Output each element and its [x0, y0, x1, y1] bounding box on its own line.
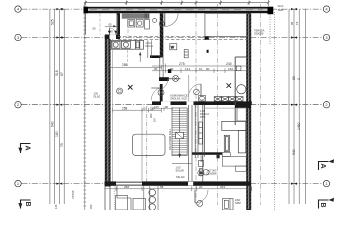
svg-text:85: 85	[290, 21, 294, 25]
overhang dashed lines above kitchen	[118, 36, 248, 38]
grid bubble right 4	[323, 6, 329, 12]
vertical grid line x128 (room axis)	[127, 13, 129, 36]
bottom small vertical texts	[54, 204, 93, 209]
grid bubble right 3	[323, 34, 329, 40]
svg-text:3: 3	[297, 78, 301, 80]
living room dim line 255	[113, 108, 162, 113]
bathtub lower right	[222, 153, 246, 172]
horizontal grid line 3 (y37.5)	[22, 37, 324, 39]
understair wc fixtures	[172, 160, 204, 176]
svg-text:10: 10	[199, 67, 203, 71]
grid bubble left 3	[15, 34, 21, 40]
left exterior wall (hatched)	[105, 35, 111, 187]
three circles (plants)	[149, 189, 156, 210]
grid bubble left 1	[15, 180, 21, 186]
svg-text:180: 180	[55, 131, 59, 137]
grid bubble right 2	[323, 102, 329, 108]
kitchen lower counter with sinks	[110, 40, 143, 49]
understair label	[176, 166, 185, 173]
lower bath labels	[200, 154, 217, 176]
svg-text:20: 20	[199, 185, 203, 189]
living room dim line 258	[110, 65, 161, 70]
living room inner wall face line	[112, 39, 114, 181]
hall door arc right	[189, 84, 202, 97]
grid bubble left 4	[15, 6, 21, 12]
svg-text:258: 258	[122, 106, 128, 110]
lower door arc	[195, 190, 208, 203]
living room drain symbol	[117, 88, 123, 94]
terrace label left	[94, 92, 101, 99]
lower vertical lines	[144, 186, 158, 210]
svg-text:131: 131	[185, 67, 190, 71]
counter dim pointer	[139, 52, 141, 62]
right cluster small dims top	[290, 21, 299, 25]
hall big circle (table)	[237, 85, 246, 94]
bottom interior heavy wall	[105, 181, 251, 185]
svg-text:518: 518	[55, 70, 59, 76]
upper-left room axis dashed	[99, 13, 101, 34]
canopy dotted line right	[274, 12, 276, 210]
svg-text:197: 197	[152, 117, 156, 122]
svg-text:67: 67	[60, 72, 64, 76]
hall door arc upper	[159, 79, 181, 90]
hall bottom wall	[152, 101, 252, 105]
hall wall stub with door (living room side)	[151, 77, 169, 101]
upper right room thin walls	[205, 13, 247, 36]
entry symbol circle	[159, 21, 164, 26]
right dimension texts	[292, 76, 301, 155]
top exterior wall	[84, 7, 274, 14]
svg-text:15: 15	[295, 21, 299, 25]
radiator entry	[184, 50, 188, 58]
svg-text:350: 350	[89, 204, 93, 209]
svg-text:⇅25: ⇅25	[278, 8, 284, 12]
svg-text:1460: 1460	[297, 122, 301, 130]
living room x mark	[128, 85, 133, 90]
section marker A right	[319, 159, 335, 170]
svg-text:58: 58	[160, 185, 164, 189]
horizontal grid line 4 (y9)	[22, 8, 324, 10]
svg-text:240: 240	[226, 62, 232, 66]
top dimension line	[84, 0, 270, 6]
svg-text:18x172/280 SCH: 18x172/280 SCH	[168, 129, 172, 150]
svg-text:25: 25	[143, 106, 147, 110]
chimney axis dash line	[146, 106, 148, 181]
right exterior wall (hatched)	[246, 13, 251, 210]
lower wc fixture	[223, 199, 234, 211]
svg-text:940: 940	[292, 149, 296, 155]
svg-text:SKLAD: SKLAD	[176, 169, 185, 173]
svg-text:A: A	[319, 163, 328, 169]
kitchen axis dashed	[126, 50, 128, 66]
upper-left room left edge	[85, 13, 87, 34]
svg-text:85: 85	[292, 76, 296, 80]
svg-text:DLAZBA: DLAZBA	[207, 172, 217, 176]
right dimension cluster lines	[289, 9, 305, 204]
svg-text:KUCH: KUCH	[145, 44, 152, 48]
bathroom partition horizontal wall	[235, 105, 251, 108]
worktop stripe block	[145, 13, 148, 18]
stairs	[168, 108, 187, 158]
svg-text:260: 260	[149, 113, 153, 118]
svg-text:05: 05	[93, 26, 97, 30]
washing machine box	[170, 44, 177, 50]
svg-text:258: 258	[124, 185, 129, 189]
svg-text:258: 258	[122, 63, 128, 67]
stair right wall	[189, 105, 198, 181]
x mark hall	[227, 83, 232, 88]
section marker A left	[18, 144, 32, 154]
bathroom top thin wall	[235, 56, 246, 58]
fan symbol 2	[194, 89, 200, 95]
entry symbol circle 2	[153, 18, 157, 22]
drain symbol hall	[158, 90, 164, 96]
svg-text:75: 75	[60, 143, 64, 147]
section marker B left	[18, 200, 31, 209]
property boundary line (ticked) left of plan	[83, 3, 86, 210]
section marker B right	[319, 198, 335, 209]
svg-text:DLAZ: DLAZ	[94, 95, 101, 99]
svg-text:ZADLAZ. KCE: ZADLAZ. KCE	[170, 97, 187, 101]
hall room label text	[170, 94, 188, 101]
fan symbol hall	[173, 75, 179, 81]
bathroom lower-right top wall	[192, 152, 223, 155]
grid bubble right 1	[323, 180, 329, 186]
hall dimension line 275	[152, 64, 251, 74]
lower right label	[235, 198, 241, 205]
svg-text:105: 105	[154, 105, 159, 109]
kitchen gray worktop along top wall	[122, 13, 150, 18]
horizontal grid line 2 (y104.7)	[22, 104, 324, 106]
lower right room left wall	[203, 105, 205, 181]
left dimension cluster lines	[50, 9, 64, 204]
svg-text:90: 90	[206, 67, 210, 71]
right dimension arrows	[291, 8, 297, 185]
left wall door opening	[105, 187, 114, 211]
column blob room corner	[205, 36, 209, 39]
sofa lower right room	[222, 121, 246, 152]
svg-text:940: 940	[51, 121, 55, 127]
svg-text:B: B	[24, 201, 31, 206]
middle vertical wall (entry/kitchen)	[160, 13, 164, 57]
horizontal grid line 1 (y183.6)	[22, 183, 324, 185]
left dimension texts	[51, 19, 65, 147]
chimney axis solid line	[141, 110, 143, 181]
svg-text:90: 90	[165, 105, 169, 109]
svg-text:B: B	[319, 202, 326, 207]
wc lower	[200, 169, 210, 176]
label under stairs	[176, 175, 185, 179]
chimney label	[149, 113, 156, 122]
svg-text:A: A	[24, 145, 33, 151]
lower-left cabinet boxes	[116, 186, 146, 210]
grid bubble left 2	[15, 102, 21, 108]
living room rug	[133, 134, 166, 155]
radiator stairwell	[199, 122, 203, 144]
svg-text:VSTUP: VSTUP	[71, 190, 75, 199]
svg-text:90: 90	[154, 67, 158, 71]
svg-text:05: 05	[109, 22, 113, 26]
svg-text:275: 275	[179, 62, 185, 66]
kitchen label	[145, 41, 152, 48]
svg-text:125: 125	[54, 204, 58, 209]
bathroom wc top	[237, 108, 246, 121]
kitchen upper appliances	[128, 20, 150, 30]
svg-text:SPIZ: SPIZ	[235, 201, 241, 205]
svg-text:525: 525	[51, 19, 55, 25]
upper-left room right wall	[117, 13, 120, 35]
vertical grid line x217.5	[217, 4, 219, 205]
upper-left room bottom wall with door opening	[105, 25, 120, 39]
svg-text:90/197: 90/197	[200, 154, 204, 162]
bathroom column wall vertical	[234, 57, 236, 105]
vertical grid line x196	[195, 4, 197, 205]
bottom-left outside label	[71, 190, 75, 199]
stair top dimension row	[152, 107, 172, 111]
canopy dotted line short top	[269, 12, 271, 45]
bathroom small cabinet	[236, 66, 241, 71]
fridge nook lines	[147, 40, 149, 58]
svg-text:PVC: PVC	[200, 115, 205, 119]
door dimension 80	[93, 22, 114, 33]
svg-text:250/250: 250/250	[254, 31, 264, 35]
vertical grid line x260.5	[260, 4, 262, 205]
hall cupboards	[214, 97, 243, 102]
svg-text:90: 90	[170, 67, 174, 71]
left dimension arrows	[56, 8, 64, 185]
lower right room top edge	[205, 107, 235, 109]
svg-text:263: 263	[220, 185, 225, 189]
entrance door arc	[165, 13, 178, 26]
lower right room label	[200, 109, 209, 119]
svg-text:SKLAD: SKLAD	[176, 175, 185, 179]
svg-text:152: 152	[228, 67, 233, 71]
lower drain symbol	[197, 200, 203, 206]
closet partition line	[188, 75, 190, 101]
terrace label right	[254, 28, 265, 35]
bottom dimension row	[105, 187, 252, 192]
